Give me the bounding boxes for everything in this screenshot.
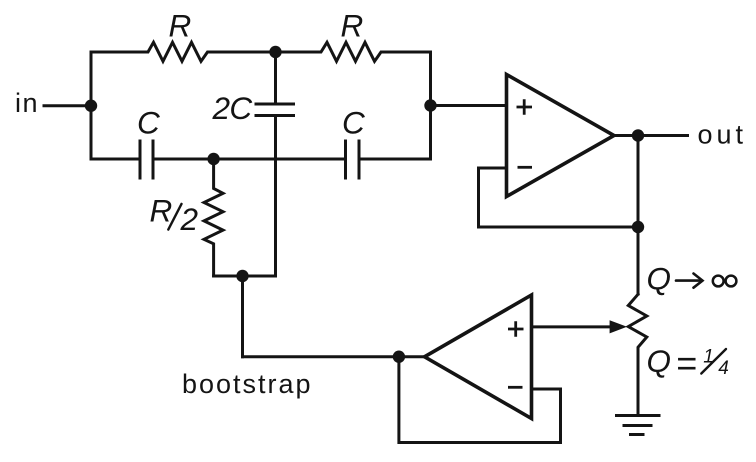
svg-text:C: C: [342, 105, 365, 141]
svg-text:in: in: [15, 88, 39, 118]
svg-text:Q: Q: [647, 261, 672, 297]
svg-text:2C: 2C: [212, 90, 253, 126]
svg-text:R: R: [169, 8, 192, 44]
svg-text:R: R: [150, 193, 173, 229]
svg-text:Q: Q: [647, 343, 672, 379]
svg-text:4: 4: [718, 358, 729, 379]
svg-text:=: =: [676, 343, 697, 384]
svg-text:1: 1: [703, 347, 714, 368]
svg-text:C: C: [137, 105, 160, 141]
svg-text:R: R: [341, 8, 364, 44]
svg-text:out: out: [698, 120, 748, 150]
svg-text:bootstrap: bootstrap: [182, 369, 313, 399]
svg-text:2: 2: [180, 201, 199, 237]
